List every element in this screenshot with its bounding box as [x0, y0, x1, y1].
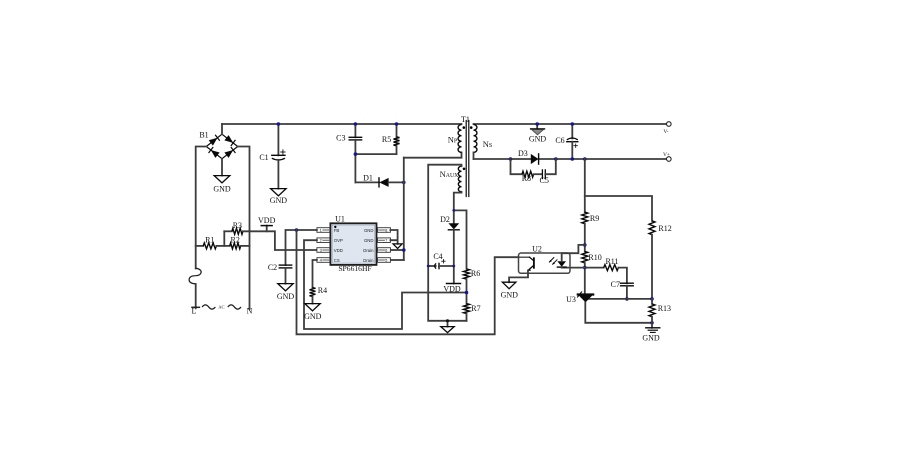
svg-text:Drain: Drain — [363, 258, 374, 263]
svg-text:VDD: VDD — [334, 248, 343, 253]
svg-text:GND: GND — [270, 196, 288, 205]
svg-text:D1: D1 — [363, 174, 373, 183]
svg-text:R10: R10 — [588, 253, 601, 262]
svg-text:R6: R6 — [471, 269, 480, 278]
svg-text:R1: R1 — [205, 236, 214, 245]
svg-text:GND: GND — [529, 135, 547, 144]
svg-text:R12: R12 — [658, 224, 671, 233]
svg-text:GND: GND — [277, 292, 295, 301]
svg-text:GND: GND — [501, 291, 519, 300]
svg-text:CS: CS — [334, 258, 340, 263]
svg-text:OVP: OVP — [334, 238, 343, 243]
svg-text:V-: V- — [663, 129, 668, 135]
svg-text:SP6616HF: SP6616HF — [338, 264, 371, 273]
svg-text:N: N — [247, 307, 253, 316]
svg-text:R13: R13 — [658, 304, 671, 313]
svg-text:C3: C3 — [336, 133, 345, 142]
svg-text:GND: GND — [304, 312, 322, 321]
svg-text:C2: C2 — [268, 263, 277, 272]
svg-text:U3: U3 — [566, 295, 576, 304]
svg-text:GND: GND — [364, 238, 374, 243]
svg-text:AC: AC — [218, 305, 224, 310]
svg-text:GND: GND — [364, 228, 374, 233]
svg-text:GND: GND — [642, 334, 660, 343]
svg-text:R8: R8 — [522, 174, 531, 183]
svg-text:R5: R5 — [382, 135, 391, 144]
svg-text:U2: U2 — [532, 244, 542, 253]
svg-text:C1: C1 — [259, 153, 268, 162]
svg-text:GND: GND — [213, 185, 231, 194]
svg-text:V+: V+ — [663, 152, 670, 158]
svg-text:C7: C7 — [611, 280, 620, 289]
svg-text:VDD: VDD — [258, 216, 276, 225]
svg-text:R11: R11 — [605, 257, 618, 266]
svg-text:R3: R3 — [233, 221, 242, 230]
svg-text:R7: R7 — [471, 304, 480, 313]
svg-text:VDD: VDD — [443, 284, 461, 293]
svg-text:D3: D3 — [518, 149, 528, 158]
svg-text:R9: R9 — [590, 214, 599, 223]
svg-text:U1: U1 — [335, 215, 345, 224]
svg-text:R4: R4 — [318, 286, 327, 295]
svg-text:T1: T1 — [461, 115, 470, 124]
svg-text:R2: R2 — [231, 236, 240, 245]
svg-text:Drain: Drain — [363, 248, 374, 253]
svg-text:D2: D2 — [440, 215, 450, 224]
svg-text:C6: C6 — [555, 136, 564, 145]
svg-text:B1: B1 — [199, 130, 208, 139]
svg-text:L: L — [192, 307, 197, 316]
svg-text:FB: FB — [334, 228, 340, 233]
svg-text:C5: C5 — [540, 176, 549, 185]
svg-text:C4: C4 — [433, 252, 442, 261]
